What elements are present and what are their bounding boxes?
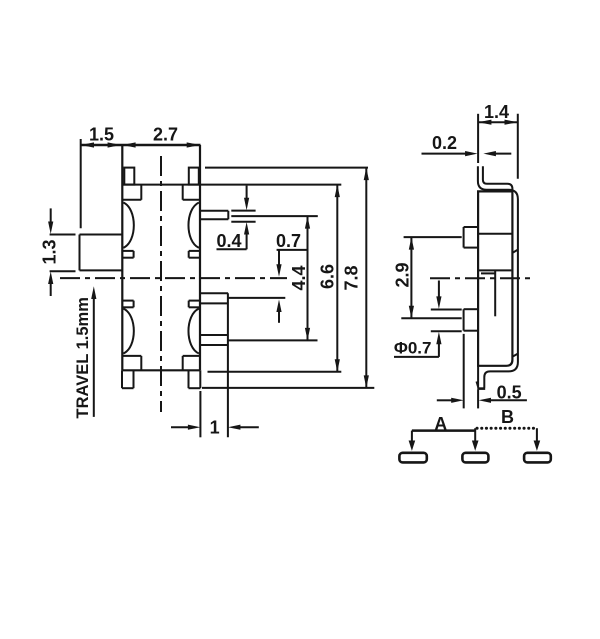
svg-text:2.7: 2.7 [153, 125, 178, 145]
svg-text:7.8: 7.8 [342, 265, 362, 290]
svg-text:0.2: 0.2 [432, 133, 457, 153]
svg-text:0.5: 0.5 [497, 383, 522, 403]
svg-text:Φ0.7: Φ0.7 [394, 339, 432, 358]
svg-text:TRAVEL 1.5mm: TRAVEL 1.5mm [74, 297, 92, 418]
svg-text:2.9: 2.9 [393, 262, 413, 287]
svg-text:0.4: 0.4 [216, 231, 241, 251]
svg-text:A: A [434, 414, 447, 434]
svg-text:0.7: 0.7 [276, 231, 301, 251]
svg-text:6.6: 6.6 [318, 264, 338, 289]
svg-text:B: B [501, 407, 514, 427]
svg-text:1.4: 1.4 [484, 102, 509, 122]
svg-text:1.5: 1.5 [89, 125, 114, 145]
svg-text:1: 1 [210, 418, 220, 438]
svg-text:4.4: 4.4 [289, 265, 309, 290]
svg-text:1.3: 1.3 [40, 239, 60, 264]
